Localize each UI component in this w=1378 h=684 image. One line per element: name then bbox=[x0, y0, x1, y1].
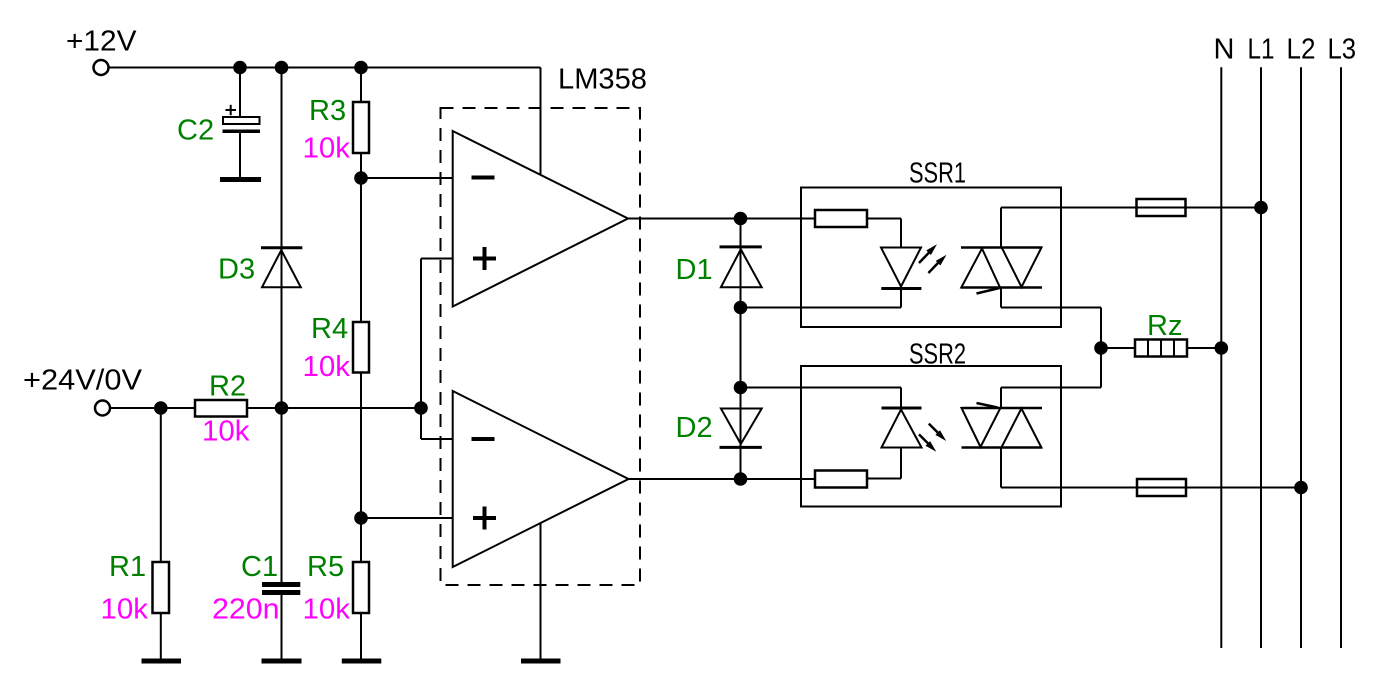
junction F1 / L1 bbox=[1254, 201, 1268, 215]
junction Rz / N bbox=[1215, 341, 1229, 355]
capacitor C2 bbox=[223, 68, 261, 132]
resistor R1 bbox=[153, 408, 170, 659]
junction D1 anode bbox=[734, 301, 748, 315]
junction R4/R5 node bbox=[354, 511, 368, 525]
svg-text:D1: D1 bbox=[676, 254, 713, 286]
junction U1B out / D2 bbox=[734, 472, 748, 486]
wire SSR1 input to LED bbox=[867, 219, 901, 247]
wire to U1A inverting input bbox=[361, 177, 453, 179]
net L2 bbox=[1300, 67, 1302, 648]
wire to U1B non-inverting input bbox=[361, 517, 453, 519]
junction top rail / C2 bbox=[233, 61, 247, 75]
svg-text:R3: R3 bbox=[309, 95, 346, 127]
resistor SSR1 input bbox=[815, 210, 867, 227]
wire LED SSR2 return bbox=[867, 448, 901, 479]
svg-text:+12V: +12V bbox=[66, 26, 137, 58]
wire LED SSR1 return bbox=[741, 289, 902, 308]
ground (U1B / LM358) bbox=[521, 523, 561, 661]
svg-text:D2: D2 bbox=[676, 412, 713, 444]
resistor R5 bbox=[353, 518, 369, 659]
diode D3 bbox=[261, 68, 302, 409]
wire triac SSR1 top terminal bbox=[1001, 208, 1137, 248]
junction R3/R4 node bbox=[354, 171, 368, 185]
svg-text:10k: 10k bbox=[202, 416, 250, 448]
junction F2 / L2 bbox=[1294, 481, 1308, 495]
junction D2 anode bbox=[734, 381, 748, 395]
resistor R4 bbox=[353, 178, 369, 518]
svg-text:10k: 10k bbox=[303, 133, 351, 165]
op-amp U1B bbox=[453, 391, 629, 567]
wire triac SSR2 bottom terminal bbox=[1001, 448, 1137, 488]
resistor R2 bbox=[195, 400, 247, 417]
diode D1 bbox=[720, 247, 762, 287]
wire D1-D2 column bbox=[740, 219, 742, 480]
ground (C2) bbox=[220, 131, 261, 179]
LED SSR1 bbox=[881, 248, 921, 289]
SSR2 box bbox=[801, 366, 1061, 507]
svg-text:L3: L3 bbox=[1328, 34, 1357, 66]
junction mid rail / op-amp inputs bbox=[414, 401, 428, 415]
svg-text:Rz: Rz bbox=[1147, 310, 1182, 342]
wire mid rail left bbox=[110, 407, 195, 409]
junction U1A out / D1 bbox=[734, 212, 748, 226]
svg-text:SSR1: SSR1 bbox=[909, 158, 966, 190]
wire U1A output bbox=[628, 218, 815, 220]
svg-text:C1: C1 bbox=[241, 551, 278, 583]
svg-text:+24V/0V: +24V/0V bbox=[23, 365, 143, 397]
ground (R5) bbox=[342, 659, 382, 664]
svg-text:C2: C2 bbox=[177, 115, 214, 147]
junction mid rail / D3-C1 bbox=[275, 401, 289, 415]
wire top rail bbox=[109, 67, 541, 69]
svg-text:10k: 10k bbox=[303, 351, 351, 383]
svg-text:220n: 220n bbox=[212, 594, 280, 626]
svg-text:D3: D3 bbox=[218, 254, 255, 286]
fuse F1 bbox=[1137, 199, 1262, 216]
wire SSR interconnect vertical bbox=[1100, 308, 1102, 388]
wire triac SSR1 bottom terminal bbox=[1001, 288, 1101, 308]
wire op-amp U1A V+ stem bbox=[540, 68, 542, 176]
svg-text:10k: 10k bbox=[303, 594, 351, 626]
node +24V/0V terminal bbox=[95, 401, 110, 416]
diode D2 bbox=[720, 409, 762, 448]
resistor R3 bbox=[353, 68, 369, 179]
svg-text:L1: L1 bbox=[1248, 34, 1275, 66]
svg-text:SSR2: SSR2 bbox=[909, 339, 966, 371]
wire U1B output bbox=[629, 478, 816, 480]
wire Rz left bbox=[1101, 347, 1135, 349]
junction top rail / D3 bbox=[275, 61, 289, 75]
capacitor C1 bbox=[262, 408, 300, 659]
svg-text:R4: R4 bbox=[311, 313, 348, 345]
svg-text:10k: 10k bbox=[101, 594, 149, 626]
svg-text:N: N bbox=[1214, 34, 1235, 66]
svg-text:LM358: LM358 bbox=[558, 64, 647, 96]
wire Rz right bbox=[1187, 347, 1221, 349]
junction top rail / R3 bbox=[354, 61, 368, 75]
resistor SSR2 input bbox=[815, 471, 867, 488]
fuse F2 bbox=[1137, 479, 1301, 496]
LED SSR2 light arrows bbox=[919, 424, 946, 452]
IC LM358 dashed box bbox=[441, 108, 641, 585]
wire +24V node to op-amp inputs bbox=[421, 259, 453, 440]
SSR1 box bbox=[801, 188, 1061, 328]
wire triac SSR2 top terminal bbox=[1001, 388, 1101, 409]
svg-text:L2: L2 bbox=[1287, 34, 1316, 66]
net L1 bbox=[1260, 67, 1262, 648]
net L3 bbox=[1340, 67, 1342, 648]
svg-text:R2: R2 bbox=[209, 371, 246, 403]
wire SSR2 input top bbox=[741, 388, 902, 408]
junction Rz left bbox=[1094, 341, 1108, 355]
op-amp U1A bbox=[453, 131, 628, 307]
junction mid rail / R1 bbox=[154, 401, 168, 415]
ground (C1) bbox=[262, 659, 302, 664]
LED SSR2 bbox=[882, 408, 922, 448]
node +12V terminal bbox=[94, 60, 109, 75]
ground (R1) bbox=[142, 659, 182, 664]
wire mid rail right bbox=[247, 407, 421, 409]
svg-text:R1: R1 bbox=[109, 551, 146, 583]
triac SSR1 bbox=[961, 248, 1042, 294]
net N bbox=[1220, 67, 1222, 648]
LED SSR1 light arrows bbox=[919, 244, 947, 273]
triac SSR2 bbox=[962, 403, 1043, 448]
svg-text:R5: R5 bbox=[307, 551, 344, 583]
resistor Rz bbox=[1135, 340, 1187, 357]
